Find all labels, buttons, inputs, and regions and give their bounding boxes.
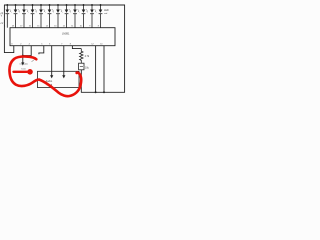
pin numbers bottom row [11,43,103,45]
LED D12 [99,4,103,28]
pin numbers top row [4,25,100,27]
wire pin right B to ground rail [103,46,105,93]
LED D4 [31,4,37,28]
LED D8 [65,4,71,28]
LED D1 [5,4,11,28]
label +9V supply [0,12,3,18]
red annotation circle with tail [9,57,81,97]
IC U1 LM3915 bar-graph driver [10,28,115,46]
label LED [104,9,109,15]
wire left supply branch to pin 3 [4,5,13,53]
node junction B [103,91,105,93]
svg-text:LM391: LM391 [62,33,70,36]
LED D2 [14,4,20,28]
red annotation dot [27,69,33,75]
LED D6 [48,4,54,28]
svg-text:10u: 10u [85,67,90,70]
resistor R1 4.7k [80,49,90,64]
wire +V top rail with right-side drop and bottom ground return [4,5,124,92]
LED D11 [90,4,96,28]
LED D5 [39,4,45,28]
wire ground stub with arrow [21,56,24,66]
svg-text:+V: +V [0,22,3,25]
svg-text:4.7k: 4.7k [85,55,90,58]
LED D7 [56,4,62,28]
label annotation note [20,59,36,71]
node junction pin2 [22,55,24,57]
red annotation pointer bar [14,71,28,73]
node junction A [95,91,97,93]
svg-text:LED: LED [104,9,109,12]
capacitor C1 10u [79,63,90,70]
LED D10 [82,4,88,28]
wire pin5 signal stub [39,46,44,55]
wire pin8 to divider [72,46,81,49]
svg-text:here: here [22,67,27,70]
audio input module box [38,71,80,87]
svg-text:no audio: no audio [20,64,29,66]
wire pin right A to ground rail [95,46,97,93]
wire pin6 to audio input with arrow [50,46,53,79]
wire pin2/pin4 ground link [23,46,31,56]
wire capacitor to ground rail [80,70,82,93]
LED D3 [22,4,28,28]
wire pin7 to audio input with arrow [62,46,65,79]
LED D9 [73,4,79,28]
